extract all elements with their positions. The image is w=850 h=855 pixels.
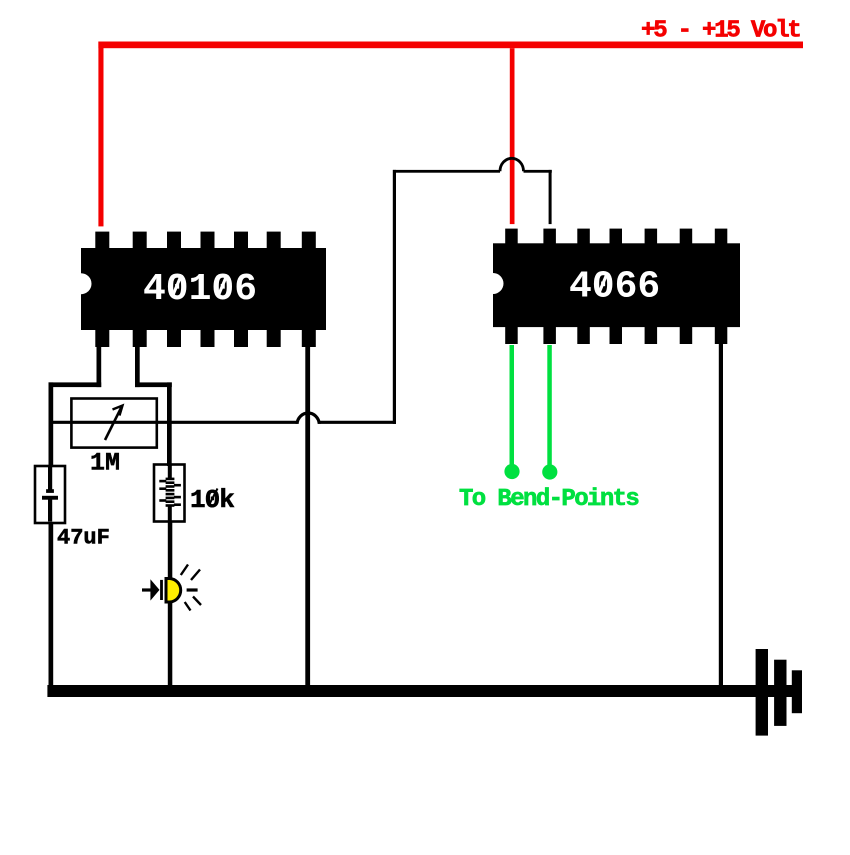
wire bus segment left bbox=[49, 382, 102, 387]
svg-text:1M: 1M bbox=[90, 448, 120, 477]
hop over pin7 wire bbox=[297, 413, 319, 424]
node bend point 2 bbox=[542, 464, 557, 479]
wire horizontal to 4066 with hop over red bbox=[393, 170, 500, 173]
wire green to bend point 2 bbox=[547, 345, 552, 467]
svg-text:4066: 4066 bbox=[569, 266, 660, 309]
resistor R1 10k box bbox=[154, 465, 185, 522]
wire V+ drop to 4066 pin 14 bbox=[510, 48, 515, 224]
potentiometer R2 1M box bbox=[71, 399, 156, 448]
ground symbol bbox=[756, 649, 802, 736]
wire 4066 pin7 to ground bbox=[719, 344, 723, 686]
wire green to bend point 1 bbox=[510, 345, 515, 467]
hop over red wire bbox=[500, 158, 524, 171]
wire 40106 pin7 drop to ground bbox=[305, 347, 310, 689]
wire 40106 pin2 drop bbox=[135, 347, 140, 387]
wire cap to ground bbox=[49, 522, 54, 689]
ground bus bbox=[47, 685, 801, 697]
wire right vertical to 10k bbox=[167, 382, 172, 466]
IC U2 4066 bbox=[483, 229, 741, 344]
LED D1 bbox=[142, 565, 201, 611]
svg-text:47uF: 47uF bbox=[57, 526, 110, 551]
wire bus segment right bbox=[135, 382, 172, 387]
svg-text:To Bend-Points: To Bend-Points bbox=[459, 486, 638, 513]
wire V+ drop to 40106 pin 14 bbox=[98, 42, 103, 227]
IC U1 40106 bbox=[71, 232, 327, 347]
wire 10k to LED to ground bbox=[168, 521, 173, 689]
svg-text:+5 - +15 Volt: +5 - +15 Volt bbox=[641, 18, 800, 45]
wire left vertical to cap bbox=[49, 382, 54, 467]
wire pot mid horizontal with hop bbox=[50, 421, 297, 424]
wire 40106 pin1 drop bbox=[97, 347, 102, 387]
wire down to 4066 pin2 bbox=[549, 170, 552, 224]
svg-text:40106: 40106 bbox=[143, 268, 257, 311]
wire vertical up from pot wire bbox=[393, 170, 396, 424]
wire V+ rail bbox=[98, 42, 803, 49]
node bend point 1 bbox=[504, 464, 519, 479]
capacitor C1 box bbox=[35, 466, 65, 523]
